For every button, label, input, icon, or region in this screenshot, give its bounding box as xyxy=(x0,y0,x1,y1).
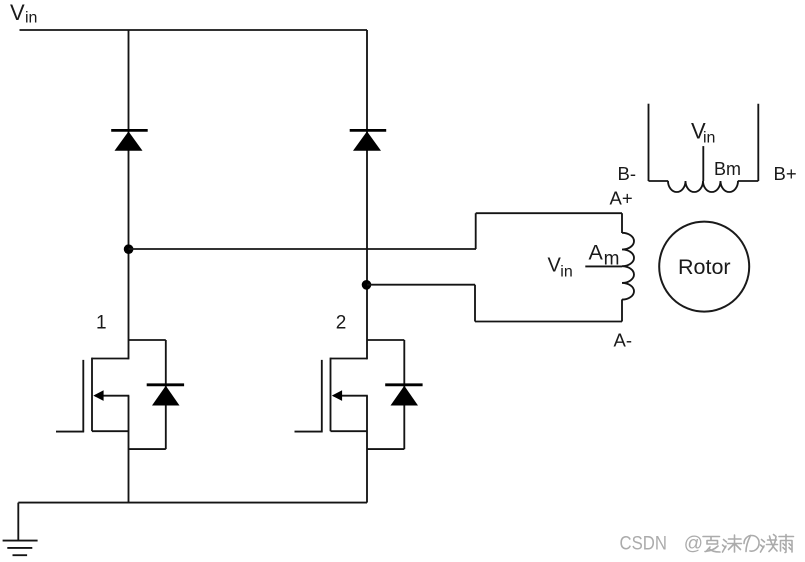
svg-text:V: V xyxy=(10,0,25,25)
transistor Q2 drain jog xyxy=(331,358,368,360)
transistor Q2 gate plate xyxy=(321,360,323,433)
ground symbol bar 3 xyxy=(13,554,28,556)
transistor Q2 channel line xyxy=(330,358,332,432)
inductor Bm coil (phase B winding) xyxy=(668,181,738,192)
wire: Q1 body-diode branch top xyxy=(129,339,166,341)
wire: Q1 body-diode branch vertical xyxy=(165,340,167,449)
svg-text:in: in xyxy=(25,9,37,26)
transistor Q1 body arrow wire xyxy=(95,395,129,397)
svg-text:B-: B- xyxy=(618,163,637,184)
wire: A-block right vertical upper xyxy=(621,213,623,233)
wire: A-block top horizontal xyxy=(476,212,622,214)
watermark CJK glyphs (drawn paths) xyxy=(703,535,794,553)
wire: right branch upper vertical (Vin to Q2 drain) xyxy=(366,30,368,359)
transistor Q1 body arrow head xyxy=(93,390,103,401)
wire: node to A-winding (phase A+ feed) xyxy=(129,248,477,250)
body diode D2b cathode bar xyxy=(385,383,422,386)
transistor Q2 gate lead xyxy=(295,431,323,433)
svg-text:in: in xyxy=(560,263,572,280)
transistor Q1 gate lead xyxy=(56,431,84,433)
net label Vin (top-left supply) xyxy=(10,0,37,26)
svg-text:CSDN: CSDN xyxy=(620,534,667,555)
watermark CSDN text xyxy=(620,534,704,555)
svg-text:B+: B+ xyxy=(774,163,797,184)
wire: left branch upper vertical (Vin to Q1 drain) xyxy=(128,30,130,359)
wire: Q1 body-diode branch bottom xyxy=(129,448,166,450)
wire: A-block left bottom vertical xyxy=(474,285,476,322)
transistor Q1 source bottom wire xyxy=(92,430,129,432)
wire: left branch lower vertical (Q1 source to ground rail) xyxy=(128,396,130,503)
transistor Q2 source bottom wire xyxy=(331,430,368,432)
wire: bottom ground rail xyxy=(18,502,367,504)
ground symbol bar 1 xyxy=(3,540,38,542)
wire: right branch lower vertical (Q2 source to ground rail) xyxy=(366,396,368,503)
transistor Q1 channel line xyxy=(91,358,93,432)
wire: Q2 body-diode branch vertical xyxy=(403,340,405,449)
diode D1 (cathode bar) xyxy=(111,129,148,132)
svg-text:@: @ xyxy=(684,534,703,555)
body diode D1b cathode bar xyxy=(147,383,184,386)
ground symbol bar 2 xyxy=(7,547,32,549)
wire: B-winding left vertical xyxy=(648,104,650,181)
node A- junction dot xyxy=(362,280,372,290)
wire: Q2 body-diode branch top xyxy=(367,339,404,341)
wire: A-block left top vertical xyxy=(475,213,477,249)
wire: Vin top rail xyxy=(20,29,368,31)
wire: ground lead xyxy=(17,503,19,540)
wire: Q2 body-diode branch bottom xyxy=(367,448,404,450)
body diode D1b anode triangle xyxy=(152,386,180,406)
net label Vin (B tap) xyxy=(691,119,715,147)
wire: node to A-winding (phase A- feed) xyxy=(367,284,475,286)
wire: Bm center tap xyxy=(702,146,704,181)
transistor Q2 body arrow wire xyxy=(334,395,368,397)
label Am xyxy=(589,240,620,269)
svg-text:A-: A- xyxy=(614,330,633,351)
wire: B-winding right horizontal xyxy=(738,180,759,182)
inductor Am coil (phase A winding) xyxy=(622,233,634,300)
node A+ junction dot xyxy=(124,244,134,254)
wire: B-winding left horizontal xyxy=(649,180,669,182)
svg-text:Rotor: Rotor xyxy=(678,255,731,279)
diode D1 (anode triangle) xyxy=(115,131,143,150)
net label Vin (A tap) xyxy=(548,255,573,281)
transistor Q1 gate plate xyxy=(82,360,84,433)
svg-text:in: in xyxy=(703,130,715,147)
svg-text:2: 2 xyxy=(336,313,347,334)
transistor Q1 drain jog xyxy=(92,358,129,360)
rotor circle xyxy=(659,222,749,312)
diode D2 anode triangle xyxy=(353,131,381,150)
wire: A-block right vertical lower xyxy=(621,299,623,321)
svg-text:A: A xyxy=(589,240,604,264)
svg-text:A+: A+ xyxy=(610,188,633,209)
diode D2 cathode bar xyxy=(350,129,387,132)
wire: Am center tap xyxy=(585,265,622,267)
wire: A-block bottom horizontal xyxy=(475,321,622,323)
body diode D2b anode triangle xyxy=(391,386,419,406)
transistor Q2 body arrow head xyxy=(332,390,342,401)
wire: B-winding right vertical xyxy=(757,104,759,181)
svg-text:m: m xyxy=(604,248,620,269)
svg-text:Bm: Bm xyxy=(714,159,741,179)
svg-text:1: 1 xyxy=(96,313,107,334)
